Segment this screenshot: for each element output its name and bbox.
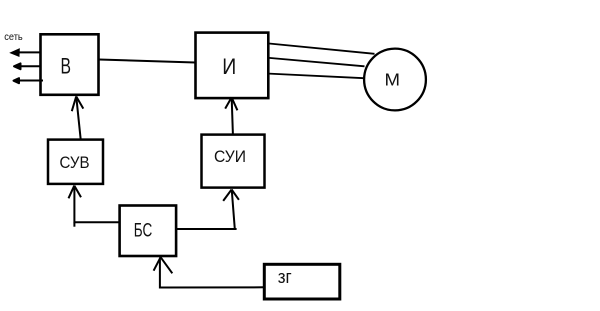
wire I to M phase 2 bbox=[269, 58, 365, 66]
wire сеть line 1 with arrow bbox=[11, 49, 41, 56]
wire ЗГ to БС bbox=[154, 257, 264, 287]
block ЗГ (master oscillator) bbox=[264, 264, 340, 299]
svg-text:И: И bbox=[222, 54, 236, 79]
wire СУИ to I arrow bbox=[225, 97, 237, 134]
svg-text:В: В bbox=[60, 54, 71, 79]
svg-text:БС: БС bbox=[134, 220, 153, 241]
block СУВ (rectifier control) bbox=[48, 140, 103, 184]
wire СУВ to B arrow bbox=[72, 96, 84, 139]
motor M bbox=[364, 49, 426, 111]
wire сеть line 2 with arrow bbox=[14, 63, 41, 69]
svg-text:зг: зг bbox=[278, 267, 292, 287]
wire сеть line 3 with arrow bbox=[14, 78, 44, 83]
wire B to I bbox=[99, 60, 195, 63]
wire I to M phase 3 bbox=[269, 74, 364, 79]
block B (rectifier) bbox=[41, 34, 99, 95]
svg-text:М: М bbox=[385, 70, 401, 90]
block БС (sync block) bbox=[120, 206, 177, 257]
block I (inverter) bbox=[196, 33, 269, 99]
wire БС to СУИ bbox=[177, 190, 239, 230]
wire БС to СУВ bbox=[69, 186, 120, 227]
svg-text:сеть: сеть bbox=[4, 32, 23, 43]
svg-text:СУИ: СУИ bbox=[214, 148, 246, 166]
svg-text:СУВ: СУВ bbox=[60, 154, 90, 172]
wire I to M phase 1 bbox=[269, 44, 375, 54]
block СУИ (inverter control) bbox=[202, 135, 265, 188]
